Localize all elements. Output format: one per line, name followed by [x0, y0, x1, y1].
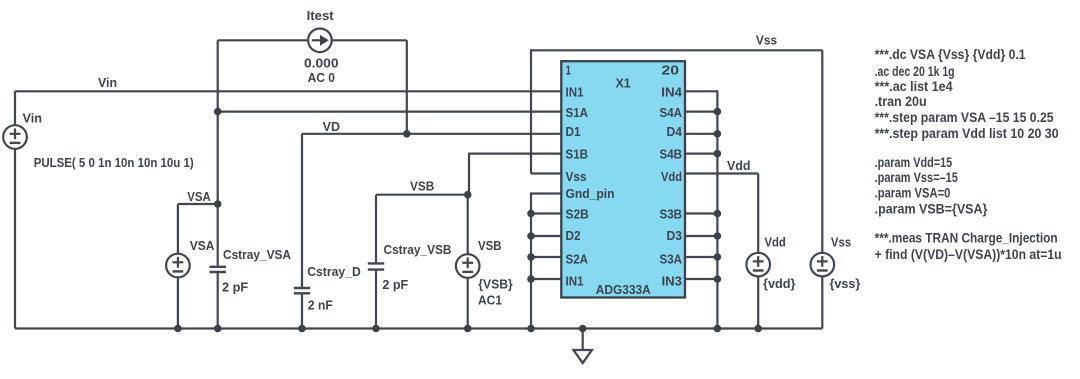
junction node VSB: [464, 191, 472, 199]
svg-text:X1: X1: [616, 75, 631, 90]
wire IN4 stub and right rail: [685, 91, 717, 328]
svg-text:S4B: S4B: [660, 146, 683, 161]
wire D3 stub: [685, 235, 717, 237]
svg-text:Cstray_D: Cstray_D: [307, 265, 361, 279]
wire D4 stub: [685, 133, 717, 135]
voltage source VSA: [166, 254, 190, 278]
wire ground bottom rail: [15, 327, 822, 329]
svg-text:.ac dec 20 1k 1g: .ac dec 20 1k 1g: [875, 63, 955, 79]
voltage source Vdd: [746, 253, 770, 277]
junction Cstray_D bottom: [298, 325, 306, 333]
wire S2B stub: [531, 212, 561, 214]
wire Gnd_pin horizontal and vertical down: [531, 194, 561, 329]
wire Cstray_D top vertical: [301, 134, 303, 287]
svg-text:ADG333A: ADG333A: [596, 282, 652, 297]
svg-text:VD: VD: [323, 120, 340, 134]
junction Vdd source bottom: [754, 325, 762, 333]
svg-text:S1A: S1A: [566, 105, 589, 120]
svg-text:PULSE( 5 0 1n 10n 10n 10u 1): PULSE( 5 0 1n 10n 10n 10u 1): [34, 156, 194, 170]
svg-text:***.ac list 1e4: ***.ac list 1e4: [875, 78, 953, 94]
wire IN1 bottom stub: [531, 278, 561, 280]
wire Cstray_D bottom vertical: [301, 294, 303, 328]
svg-text:{vss}: {vss}: [830, 277, 861, 291]
wire S3A stub: [685, 256, 717, 258]
wire Vdd source vertical: [757, 174, 759, 329]
wire Vss top rail: [531, 50, 822, 173]
svg-text:S2B: S2B: [566, 207, 589, 222]
wire Cstray_VSB top vertical: [375, 195, 377, 263]
svg-text:{vdd}: {vdd}: [763, 277, 796, 291]
ground symbol stub and triangle: [574, 329, 592, 364]
junction S4A: [714, 108, 722, 116]
wire VD horizontal to D1: [302, 133, 561, 135]
svg-text:D4: D4: [667, 124, 683, 139]
svg-text:0.000: 0.000: [304, 57, 339, 71]
svg-text:.param VSA=0: .param VSA=0: [875, 185, 951, 201]
svg-text:+ find (V(VD)–V(VSA))*10n at=1: + find (V(VD)–V(VSA))*10n at=1u: [875, 246, 1062, 262]
wire Itest right vertical (node VD): [406, 40, 408, 134]
svg-text:Vdd: Vdd: [661, 169, 682, 184]
svg-text:S4A: S4A: [660, 105, 683, 120]
wire Vss pin horizontal: [531, 172, 561, 174]
voltage source Vin: [3, 125, 27, 149]
svg-text:VSB: VSB: [478, 239, 502, 253]
svg-text:VSB: VSB: [410, 179, 434, 193]
svg-text:D1: D1: [566, 124, 581, 139]
junction Gnd rail: [527, 325, 535, 333]
junction VSB source bottom: [464, 325, 472, 333]
junction right rail bottom: [714, 325, 722, 333]
junction S3B: [714, 210, 722, 218]
wire VSB source vertical: [467, 195, 469, 329]
capacitor Cstray_D: [294, 288, 310, 293]
svg-text:Cstray_VSB: Cstray_VSB: [384, 243, 452, 257]
wire IN3 stub: [685, 278, 717, 280]
wire Cstray_VSB bottom vertical: [375, 271, 377, 329]
svg-text:***.step param Vdd list 10 20: ***.step param Vdd list 10 20 30: [875, 125, 1059, 141]
capacitor Cstray_VSA: [210, 267, 226, 272]
wire S1A horizontal: [218, 110, 562, 112]
wire D2 stub: [531, 235, 561, 237]
svg-text:Cstray_VSA: Cstray_VSA: [223, 248, 291, 262]
svg-text:.param Vss=–15: .param Vss=–15: [875, 169, 958, 185]
junction S2A: [527, 253, 535, 261]
capacitor Cstray_VSB: [368, 263, 384, 269]
wire Vin source vertical: [14, 91, 16, 328]
svg-text:.param Vdd=15: .param Vdd=15: [875, 154, 953, 170]
svg-text:IN1: IN1: [566, 274, 584, 289]
voltage source VSB: [456, 254, 480, 278]
svg-text:Itest: Itest: [307, 9, 335, 23]
svg-text:1: 1: [566, 63, 572, 78]
svg-text:***.dc VSA {Vss} {Vdd} 0.1: ***.dc VSA {Vss} {Vdd} 0.1: [875, 46, 1026, 62]
junction node VD: [403, 130, 411, 138]
svg-text:D3: D3: [667, 228, 683, 243]
junction IN1 bottom: [527, 275, 535, 283]
svg-text:20: 20: [662, 63, 680, 78]
op-amp U1 ADG333A IC body: [561, 61, 685, 297]
wire Vss source vertical right: [821, 50, 823, 328]
svg-text:IN3: IN3: [662, 274, 683, 289]
wire Cstray_VSA bottom vertical: [217, 273, 219, 329]
svg-text:IN4: IN4: [661, 85, 682, 100]
junction ground symbol: [579, 325, 587, 333]
svg-text:.tran 20u: .tran 20u: [875, 93, 927, 109]
svg-text:D2: D2: [566, 228, 581, 243]
svg-text:Vss: Vss: [831, 236, 851, 250]
svg-text:S1B: S1B: [566, 146, 589, 161]
svg-text:***.meas TRAN Charge_Injection: ***.meas TRAN Charge_Injection: [875, 230, 1058, 246]
junction VSA source bottom: [174, 325, 182, 333]
junction IN3: [714, 275, 722, 283]
svg-text:2 nF: 2 nF: [308, 298, 334, 312]
svg-text:Vss: Vss: [756, 34, 777, 48]
voltage source Vss: [811, 253, 835, 277]
wire VSA source vertical: [177, 204, 179, 329]
wire S2A stub: [531, 256, 561, 258]
wire S1B horizontal and corner down: [469, 154, 561, 195]
svg-text:S3A: S3A: [660, 252, 683, 267]
junction D3: [714, 232, 722, 240]
svg-text:2 pF: 2 pF: [382, 278, 408, 292]
svg-text:Gnd_pin: Gnd_pin: [566, 186, 615, 201]
wire S4A stub: [685, 110, 717, 112]
wire Itest left vertical upper (node VSA): [217, 40, 219, 265]
wire VSB horizontal: [376, 194, 468, 196]
junction D2: [527, 232, 535, 240]
svg-text:S2A: S2A: [566, 252, 589, 267]
wire Vin horizontal to IN1: [15, 90, 561, 92]
svg-text:AC1: AC1: [478, 294, 502, 308]
svg-text:Vin: Vin: [98, 76, 117, 90]
wire S3B stub: [685, 212, 717, 214]
junction D4: [714, 130, 722, 138]
wire S4B stub: [685, 153, 717, 155]
junction S2B: [527, 210, 535, 218]
svg-text:Vin: Vin: [23, 112, 43, 126]
wire VSA label horizontal: [178, 203, 218, 205]
svg-text:2 pF: 2 pF: [222, 281, 249, 295]
svg-text:S3B: S3B: [660, 207, 683, 222]
wire Itest top horizontal: [218, 39, 407, 41]
junction S4B: [714, 150, 722, 158]
current source Itest: [308, 29, 332, 53]
svg-text:Vss: Vss: [566, 169, 587, 184]
junction S3A: [714, 253, 722, 261]
svg-text:VSA: VSA: [190, 239, 215, 253]
svg-text:IN1: IN1: [566, 85, 584, 100]
junction node VSA label: [214, 200, 222, 208]
junction Cstray_VSA bottom: [214, 325, 222, 333]
junction node S1A/VSA line: [214, 108, 222, 116]
svg-text:Vdd: Vdd: [765, 236, 786, 250]
svg-text:***.step param VSA –15 15 0.25: ***.step param VSA –15 15 0.25: [875, 109, 1054, 125]
svg-text:.param VSB={VSA}: .param VSB={VSA}: [875, 200, 988, 216]
junction Cstray_VSB bottom: [372, 325, 380, 333]
svg-text:{VSB}: {VSB}: [478, 277, 513, 291]
svg-text:Vdd: Vdd: [727, 159, 751, 173]
svg-text:AC 0: AC 0: [308, 71, 335, 85]
wire Vdd pin horizontal: [685, 172, 758, 174]
svg-text:VSA: VSA: [187, 190, 210, 204]
